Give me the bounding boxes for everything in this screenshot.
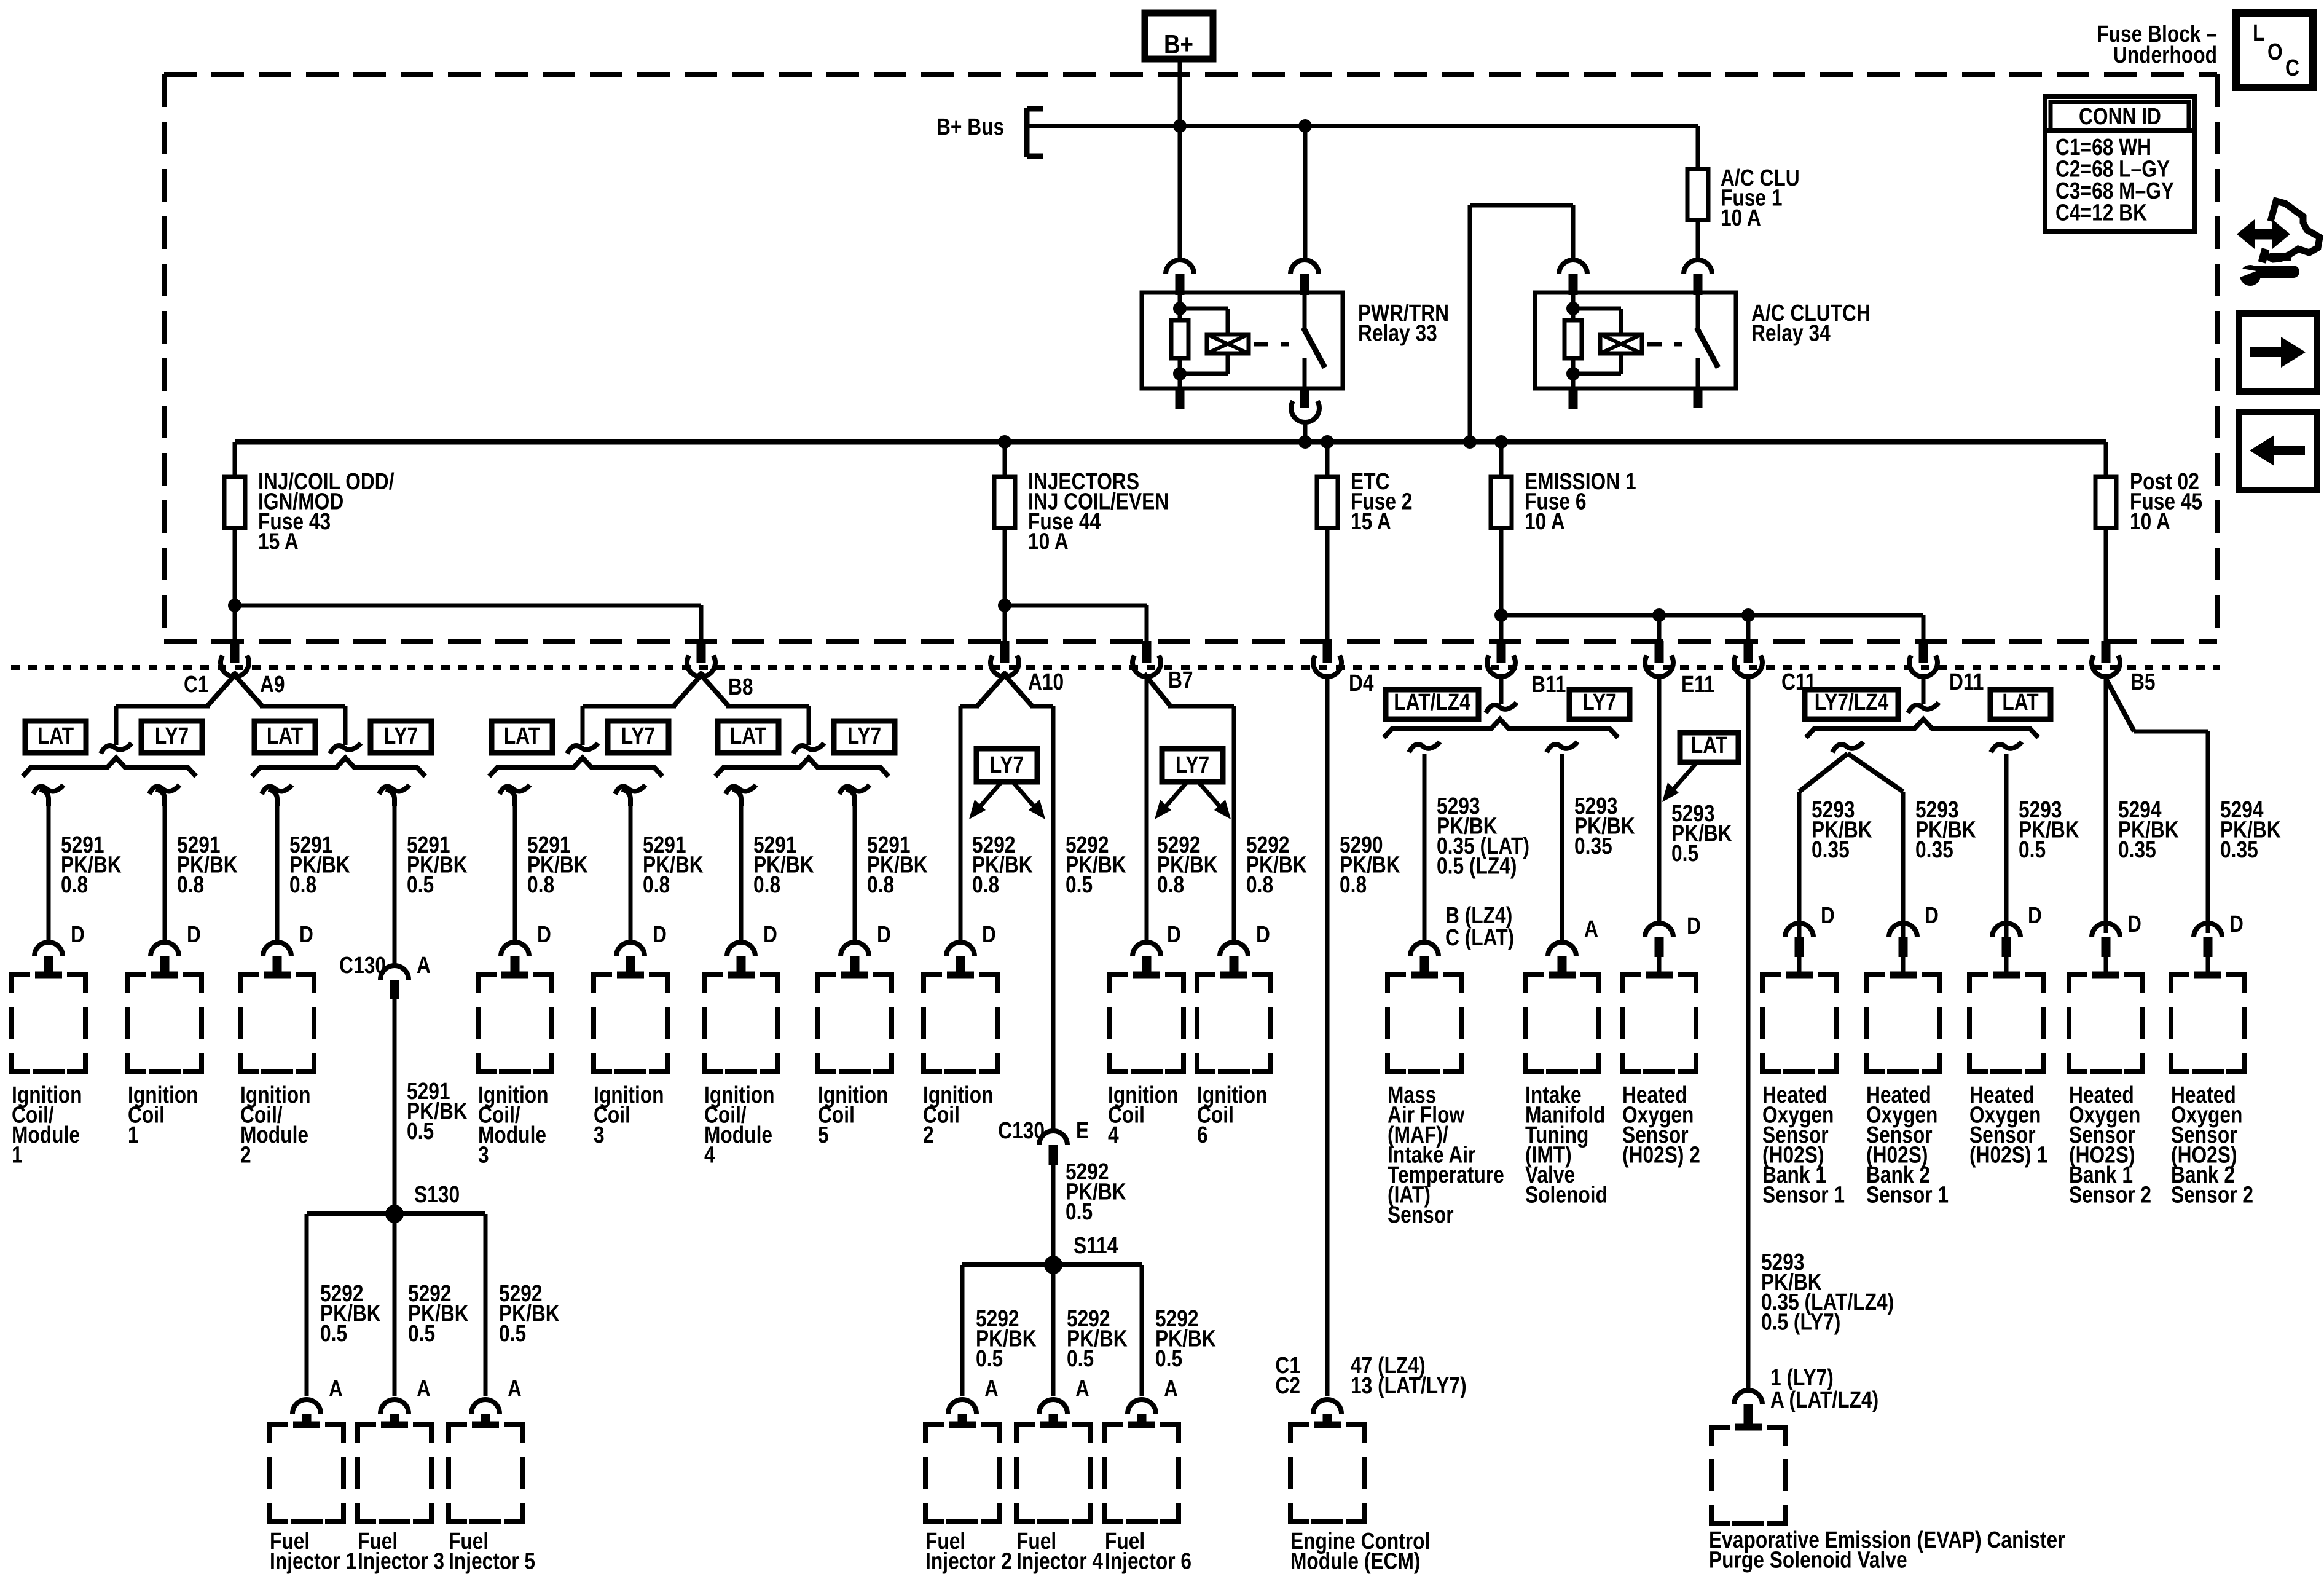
svg-text:A: A [329,1376,343,1401]
svg-text:D: D [1925,902,1939,928]
label MAF sensor [1388,1082,1504,1227]
wire B5 to bank1 sensor2 [2104,677,2108,933]
svg-text:0.5: 0.5 [408,1320,435,1346]
wire D11 left split [1799,742,1903,937]
brace pair at 189 [23,758,196,776]
svg-text:0.5 (LZ4): 0.5 (LZ4) [1437,853,1517,879]
svg-text:Injector 4: Injector 4 [1016,1548,1104,1574]
svg-text:LY7: LY7 [847,723,881,749]
LY7 tag pair at 948 [608,721,669,753]
connector C130 pin A [339,952,431,999]
svg-text:15 A: 15 A [1351,508,1391,534]
wire fuse1 to relay34 switch [1696,222,1700,260]
svg-text:C4=12 BK: C4=12 BK [2055,200,2147,226]
label HO2S 3097 [1866,1082,1949,1208]
svg-text:0.5: 0.5 [2019,837,2046,862]
wire fuel injector column 499 [307,1214,381,1402]
svg-text:D: D [71,921,85,947]
HO2S box 2928 [1762,975,1781,993]
svg-text:LY7/LZ4: LY7/LZ4 [1815,689,1889,715]
label HO2S 3427 [2069,1082,2151,1208]
connector pin D coil 1026 [616,942,645,956]
label fuel injector 1566 [925,1528,1012,1574]
svg-text:A: A [417,952,431,978]
connector B8 [673,641,753,706]
connector C130 pin E [998,1117,1089,1165]
ignition coil box 1026 [594,975,612,993]
wire ignition coil column 1863 [1147,674,1218,948]
service wrench icon [2237,201,2320,286]
fuse block dashed border right [2215,74,2220,641]
svg-text:0.5: 0.5 [320,1320,347,1346]
label HO2S 2 [1622,1082,1700,1168]
connector pin A injector 1566 [948,1400,976,1414]
svg-text:0.8: 0.8 [1157,872,1184,897]
LY7/LZ4 tag D11 [1805,690,1898,719]
svg-text:0.8: 0.8 [177,872,204,897]
label ignition coil 79 [12,1082,82,1168]
wire to S114 [1053,1159,1126,1265]
wire HO2S column 3097 [1915,797,1976,928]
svg-text:LY7: LY7 [990,752,1024,778]
svg-text:LAT/LZ4: LAT/LZ4 [1394,689,1470,715]
fuel injector box 1714 [1016,1425,1035,1443]
ignition coil box 451 [240,975,259,993]
junction dot [1741,608,1755,622]
svg-text:Sensor: Sensor [1388,1202,1454,1227]
relay 34 A/C CLUTCH [1535,260,1871,409]
svg-text:LY7: LY7 [1582,689,1616,715]
junction dot [1173,119,1187,133]
back arrow box [2239,412,2317,490]
svg-text:CONN ID: CONN ID [2079,103,2161,129]
label fuel injector 642 [358,1528,444,1574]
brace B11 [1384,719,1618,738]
svg-text:D: D [877,921,891,947]
fuel injector box 1566 [925,1425,944,1443]
svg-text:D: D [1687,913,1701,939]
svg-text:LAT: LAT [504,723,540,749]
svg-text:A9: A9 [260,671,285,697]
wire HO2S column 3265 [2019,797,2079,928]
svg-text:10 A: 10 A [1525,508,1565,534]
connector pin D coil 1562 [946,942,975,956]
svg-text:A10: A10 [1028,669,1064,695]
svg-text:D4: D4 [1349,670,1374,696]
svg-text:Module (ECM): Module (ECM) [1290,1548,1420,1574]
connector pin D 3427 [2092,923,2120,937]
connector pin D HO2S2 [1645,923,1673,937]
connector pin A injector 499 [292,1400,321,1414]
label ignition coil 2008 [1197,1082,1268,1148]
label fuel injector 499 [270,1528,356,1574]
ignition coil box 2008 [1197,975,1215,993]
svg-text:A: A [1075,1376,1089,1401]
wire to fuse1 [1696,126,1700,167]
connector D4 [1313,641,1374,696]
svg-text:D: D [1821,902,1835,928]
wire ignition coil column 1206 [726,785,814,948]
MAF sensor box [1388,975,1406,993]
wire C1/A9 left branch [101,706,210,754]
label HO2S 3265 [1969,1082,2047,1168]
svg-text:LAT: LAT [730,723,766,749]
junction dot [998,599,1011,612]
ignition coil box 1391 [818,975,836,993]
svg-text:D: D [763,921,777,947]
svg-text:O: O [2267,39,2283,65]
junction dot [1463,435,1477,449]
connector pin A injector 1858 [1128,1400,1156,1414]
label ignition coil 1206 [704,1082,775,1168]
fuse F1 A/C CLU [1687,165,1800,230]
svg-text:0.8: 0.8 [1246,872,1273,897]
wire D4 to ECM [1327,677,1400,1396]
svg-text:0.8: 0.8 [1340,872,1367,897]
junction dot [1298,435,1312,449]
splice S114 [962,1232,1142,1274]
svg-text:A (LAT/LZ4): A (LAT/LZ4) [1770,1387,1878,1412]
LAT tag pair at 948 [492,721,552,753]
wire HO2S 2 column [1659,677,1732,939]
LAT tag pair at 189 [25,721,86,753]
fuel injector box 499 [270,1425,288,1443]
connector pin D coil 2008 [1220,942,1248,956]
junction dot [1494,608,1508,622]
wire ignition coil column 79 [33,785,122,948]
svg-text:0.8: 0.8 [289,872,316,897]
connector pin D 3097 [1889,923,1917,937]
label ignition coil 268 [128,1082,198,1148]
LAT tag pair at 562 [254,721,315,753]
ignition coil box 79 [12,975,30,993]
wire fuel injector column 1858 [1142,1265,1216,1402]
wire IMT column [1547,742,1635,942]
svg-text:LAT: LAT [2002,689,2038,715]
connector pin D coil 1391 [841,942,869,956]
svg-text:Relay 34: Relay 34 [1751,320,1831,346]
wire A10 left branch to coil2 [960,704,1053,709]
connector pin D coil 1863 [1133,942,1161,956]
svg-text:3: 3 [594,1122,605,1148]
fuse block dashed border left [162,74,167,641]
svg-text:LY7: LY7 [384,723,418,749]
svg-text:Sensor 2: Sensor 2 [2171,1182,2253,1208]
splice S130 [307,1181,485,1223]
label EVAP solenoid [1709,1527,2065,1573]
svg-text:Sensor 1: Sensor 1 [1866,1182,1949,1208]
svg-text:3: 3 [478,1142,489,1168]
svg-text:Sensor 2: Sensor 2 [2069,1182,2151,1208]
svg-text:0.35: 0.35 [2118,837,2156,862]
svg-text:0.8: 0.8 [867,872,894,897]
svg-text:S114: S114 [1074,1232,1118,1258]
wire C1/A9 right branch [260,706,361,754]
svg-text:Injector 6: Injector 6 [1105,1548,1191,1574]
svg-text:D: D [299,921,313,947]
wire fuse43 branch to B8 [235,605,701,641]
connector pin MAF [1410,942,1439,956]
label fuel injector 1714 [1016,1528,1104,1574]
svg-text:2: 2 [240,1142,251,1168]
connector pin D coil 79 [34,942,63,956]
fuel injector box 790 [449,1425,467,1443]
LY7 tag A10 [969,749,1045,819]
connector pin D coil 268 [151,942,179,956]
wire ignition coil column 1562 [960,706,1033,948]
label ignition coil 1863 [1108,1082,1179,1148]
connector pin IMT [1548,942,1576,956]
connector B7 [1133,641,1193,706]
brace pair at 1316 [715,758,889,776]
label ignition coil 1391 [818,1082,889,1148]
label ECM [1290,1528,1430,1574]
svg-text:10 A: 10 A [2130,508,2170,534]
wire HO2S column 3593 [2220,797,2281,937]
wire ignition coil column 2008 [1234,706,1307,948]
svg-text:D: D [653,921,667,947]
wire C11 to EVAP [1748,677,1894,1413]
svg-text:5: 5 [818,1122,829,1148]
svg-text:15 A: 15 A [258,529,299,554]
svg-text:10 A: 10 A [1721,205,1761,230]
fuel injector box 642 [358,1425,376,1443]
wire fuel injector column 1566 [962,1265,1037,1402]
wire fuse44 branch to B7 [1005,605,1147,641]
svg-text:0.5: 0.5 [976,1345,1003,1371]
svg-text:13 (LAT/LY7): 13 (LAT/LY7) [1351,1372,1467,1398]
junction dot [1652,608,1666,622]
ECM box [1290,1425,1309,1443]
wire MAF column [1409,742,1529,951]
svg-text:6: 6 [1197,1122,1208,1148]
wire relay34 coil feed [1470,205,1573,442]
wire B5 branch to bank2 sensor2 [2106,679,2208,933]
svg-text:0.5: 0.5 [407,1118,434,1144]
label fuel injector 790 [449,1528,535,1574]
svg-text:D: D [1167,921,1181,947]
svg-text:Relay 33: Relay 33 [1358,320,1437,346]
LOC legend box [2236,13,2313,87]
label ignition coil 1562 [923,1082,994,1148]
wire HO2S column 3427 [2118,797,2179,937]
brace pair at 562 [252,758,425,776]
connector pin A injector 1714 [1039,1400,1067,1414]
svg-text:Injector 3: Injector 3 [358,1548,444,1574]
IMT valve box [1525,975,1544,993]
LAT tag E11 [1662,732,1738,802]
svg-text:Solenoid: Solenoid [1525,1182,1608,1208]
wire ignition coil column 268 [149,785,238,948]
connector pin ECM [1313,1400,1341,1414]
wire fuel injector column 790 [485,1214,560,1402]
wire ignition coil column 1391 [839,785,928,948]
svg-text:B5: B5 [2130,669,2156,695]
wire fuel injector column 1714 [1053,1265,1128,1402]
fuse F44 INJECTORS [994,442,1169,641]
svg-text:A: A [417,1376,431,1401]
relay 33 output connector [1291,401,1319,443]
svg-text:S130: S130 [414,1181,460,1207]
wire HO2S column 2928 [1812,797,1872,928]
HO2S box 3265 [1969,975,1988,993]
LAT tag pair at 1316 [718,721,779,753]
svg-text:0.8: 0.8 [61,872,88,897]
wire fuel injector column 642 [395,1214,469,1402]
wire to relay33 switch [1303,126,1308,260]
HO2S 2 box [1622,975,1641,993]
connector pin D 3593 [2194,923,2222,937]
svg-text:10 A: 10 A [1028,529,1069,554]
svg-text:C1: C1 [184,671,209,697]
svg-text:Injector 2: Injector 2 [925,1548,1012,1574]
svg-text:LAT: LAT [37,723,74,749]
svg-text:A: A [1584,916,1598,942]
junction dot [1494,435,1508,449]
LAT/LZ4 tag B11 [1386,690,1478,719]
junction dot [998,435,1011,449]
svg-text:B+: B+ [1164,29,1193,60]
svg-text:0.5: 0.5 [1066,872,1093,897]
svg-text:C130: C130 [998,1117,1045,1143]
LAT tag D11 [1990,690,2051,719]
label HO2S 2928 [1762,1082,1845,1208]
svg-text:B8: B8 [728,674,753,699]
svg-text:C (LAT): C (LAT) [1445,924,1514,950]
svg-text:D: D [2127,911,2141,937]
brace pair at 948 [489,758,662,776]
wire injector even feed [1053,706,1126,1130]
svg-text:B+ Bus: B+ Bus [936,114,1004,140]
label ignition coil 451 [240,1082,311,1168]
EVAP solenoid box [1711,1427,1730,1446]
wire to S130 [395,999,468,1214]
wire B8 right branch [726,706,824,754]
svg-text:(H02S) 2: (H02S) 2 [1622,1142,1700,1168]
connector C11 [1734,641,1816,695]
svg-text:D: D [1256,921,1270,947]
svg-text:2: 2 [923,1122,934,1148]
svg-text:0.35: 0.35 [2220,837,2258,862]
svg-text:A: A [984,1376,999,1401]
HO2S box 3593 [2171,975,2189,993]
svg-text:0.5: 0.5 [1067,1345,1094,1371]
wire emission branch [1501,615,1923,641]
fuse block dashed border top [164,72,2217,77]
svg-text:D: D [982,921,996,947]
B+ bus wire [1027,124,1698,128]
svg-text:E: E [1076,1117,1089,1143]
fuse F2 ETC [1317,442,1413,641]
svg-text:E11: E11 [1681,671,1715,697]
connector pin D 2928 [1785,923,1813,937]
svg-text:L: L [2253,20,2264,45]
connector E11 [1645,641,1715,698]
svg-text:(H02S) 1: (H02S) 1 [1969,1142,2047,1168]
svg-text:0.5: 0.5 [499,1320,526,1346]
fuse block dashed border bottom [164,639,2217,644]
svg-text:LAT: LAT [267,723,303,749]
svg-text:0.5: 0.5 [1066,1199,1093,1224]
svg-text:0.8: 0.8 [643,872,670,897]
CONN ID table [2045,96,2194,231]
svg-text:4: 4 [704,1142,715,1168]
connector D11 [1908,641,1984,713]
HO2S box 3427 [2069,975,2087,993]
label HO2S 3593 [2171,1082,2253,1208]
ignition coil box 838 [478,975,497,993]
LY7 tag pair at 1316 [834,721,895,753]
label IMT valve [1525,1082,1608,1208]
connector pin D coil 838 [501,942,529,956]
svg-text:0.5 (LY7): 0.5 (LY7) [1761,1309,1840,1335]
LY7 tag B11 [1569,690,1630,719]
connector pin A injector 642 [380,1400,409,1414]
label ignition coil 838 [478,1082,549,1168]
wire ignition coil column 1026 [615,785,704,948]
connector pin D coil 1206 [727,942,755,956]
connector pin A injector 790 [471,1400,500,1414]
main feed bus [235,439,2106,445]
svg-text:LY7: LY7 [1176,752,1209,778]
svg-text:LY7: LY7 [155,723,189,749]
svg-text:Purge Solenoid Valve: Purge Solenoid Valve [1709,1547,1907,1573]
connector pin EVAP [1734,1390,1762,1404]
wire to relay33 coil [1178,126,1182,260]
svg-text:D: D [2229,911,2244,937]
LY7 tag pair at 189 [141,721,202,753]
svg-text:B11: B11 [1531,671,1566,697]
junction dot [1321,435,1334,449]
svg-text:0.8: 0.8 [972,872,999,897]
forward arrow box [2239,313,2317,392]
svg-text:4: 4 [1108,1122,1119,1148]
svg-text:Sensor 1: Sensor 1 [1762,1182,1845,1208]
svg-text:D11: D11 [1949,669,1984,695]
fuse F45 Post 02 [2095,442,2202,641]
svg-text:0.35: 0.35 [1812,837,1850,862]
svg-text:0.35: 0.35 [1574,833,1612,859]
svg-text:0.5: 0.5 [407,872,434,897]
svg-text:A: A [508,1376,522,1401]
battery B+ terminal [1145,13,1213,60]
ignition coil box 1863 [1110,975,1128,993]
wire injector odd feed [379,785,468,964]
svg-text:1: 1 [12,1142,23,1168]
label Fuse Block Underhood [2097,21,2217,68]
svg-text:Injector 5: Injector 5 [449,1548,535,1574]
svg-text:D: D [537,921,551,947]
junction dot [1298,119,1312,133]
svg-text:A: A [1164,1376,1178,1401]
connector B11 [1486,641,1566,713]
svg-text:LY7: LY7 [621,723,655,749]
HO2S box 3097 [1866,975,1885,993]
wire B7 right branch to coil6 [1168,704,1234,709]
LY7 tag B7 [1155,749,1231,819]
B+ Bus bracket [936,108,1043,157]
junction dot [228,599,241,612]
brace D11 [1806,719,2038,738]
wire D11 right branch [1991,742,2022,937]
svg-text:C2: C2 [1275,1372,1300,1398]
svg-text:0.8: 0.8 [753,872,780,897]
fuel injector box 1858 [1105,1425,1123,1443]
svg-text:Injector 1: Injector 1 [270,1548,356,1574]
svg-text:0.5: 0.5 [1671,840,1698,866]
LY7 tag pair at 562 [371,721,431,753]
fuse F6 EMISSION 1 [1491,442,1636,641]
